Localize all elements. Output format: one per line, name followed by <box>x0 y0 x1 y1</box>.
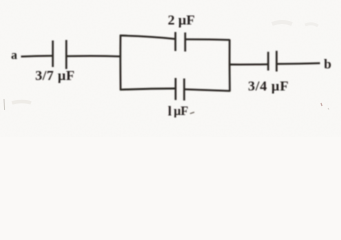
wire top edge left segment <box>120 36 175 39</box>
svg-text:b: b <box>324 56 332 71</box>
wire bottom edge left segment <box>120 89 175 90</box>
wire bottom edge right segment <box>185 89 230 91</box>
wire a to C1 <box>21 55 52 58</box>
svg-text:μF: μF <box>174 104 189 118</box>
tick after 1 uF label <box>190 112 194 113</box>
capacitor C1 (3/7 uF) left plate <box>52 41 54 68</box>
svg-text:2 μF: 2 μF <box>168 14 195 29</box>
wire top edge right segment <box>186 38 230 41</box>
capacitor C3 (3/4 uF) right plate <box>276 51 278 72</box>
svg-text:3/4 μF: 3/4 μF <box>248 79 289 94</box>
wire parallel block to C3 <box>230 63 268 65</box>
svg-text:l: l <box>168 103 172 118</box>
wire left edge of parallel block <box>119 35 121 90</box>
wire right edge of parallel block <box>229 40 231 92</box>
capacitor C4 (1 uF) right plate <box>183 79 185 101</box>
scan smudge bottom-left <box>3 99 6 110</box>
wire C1 to parallel block left side <box>67 55 121 57</box>
scan speck bottom-right <box>321 103 322 106</box>
capacitor C4 (1 uF) left plate <box>175 78 177 100</box>
capacitor C2 (2 uF) left plate <box>174 32 176 51</box>
svg-text:a: a <box>11 48 18 62</box>
capacitor C3 (3/4 uF) left plate <box>267 52 269 71</box>
svg-text:3/7 μF: 3/7 μF <box>35 69 75 84</box>
scan smudge top-right <box>272 22 292 24</box>
capacitor C2 (2 uF) right plate <box>184 33 186 52</box>
wire C3 to b <box>277 62 320 65</box>
capacitor C1 (3/7 uF) right plate <box>65 40 67 69</box>
